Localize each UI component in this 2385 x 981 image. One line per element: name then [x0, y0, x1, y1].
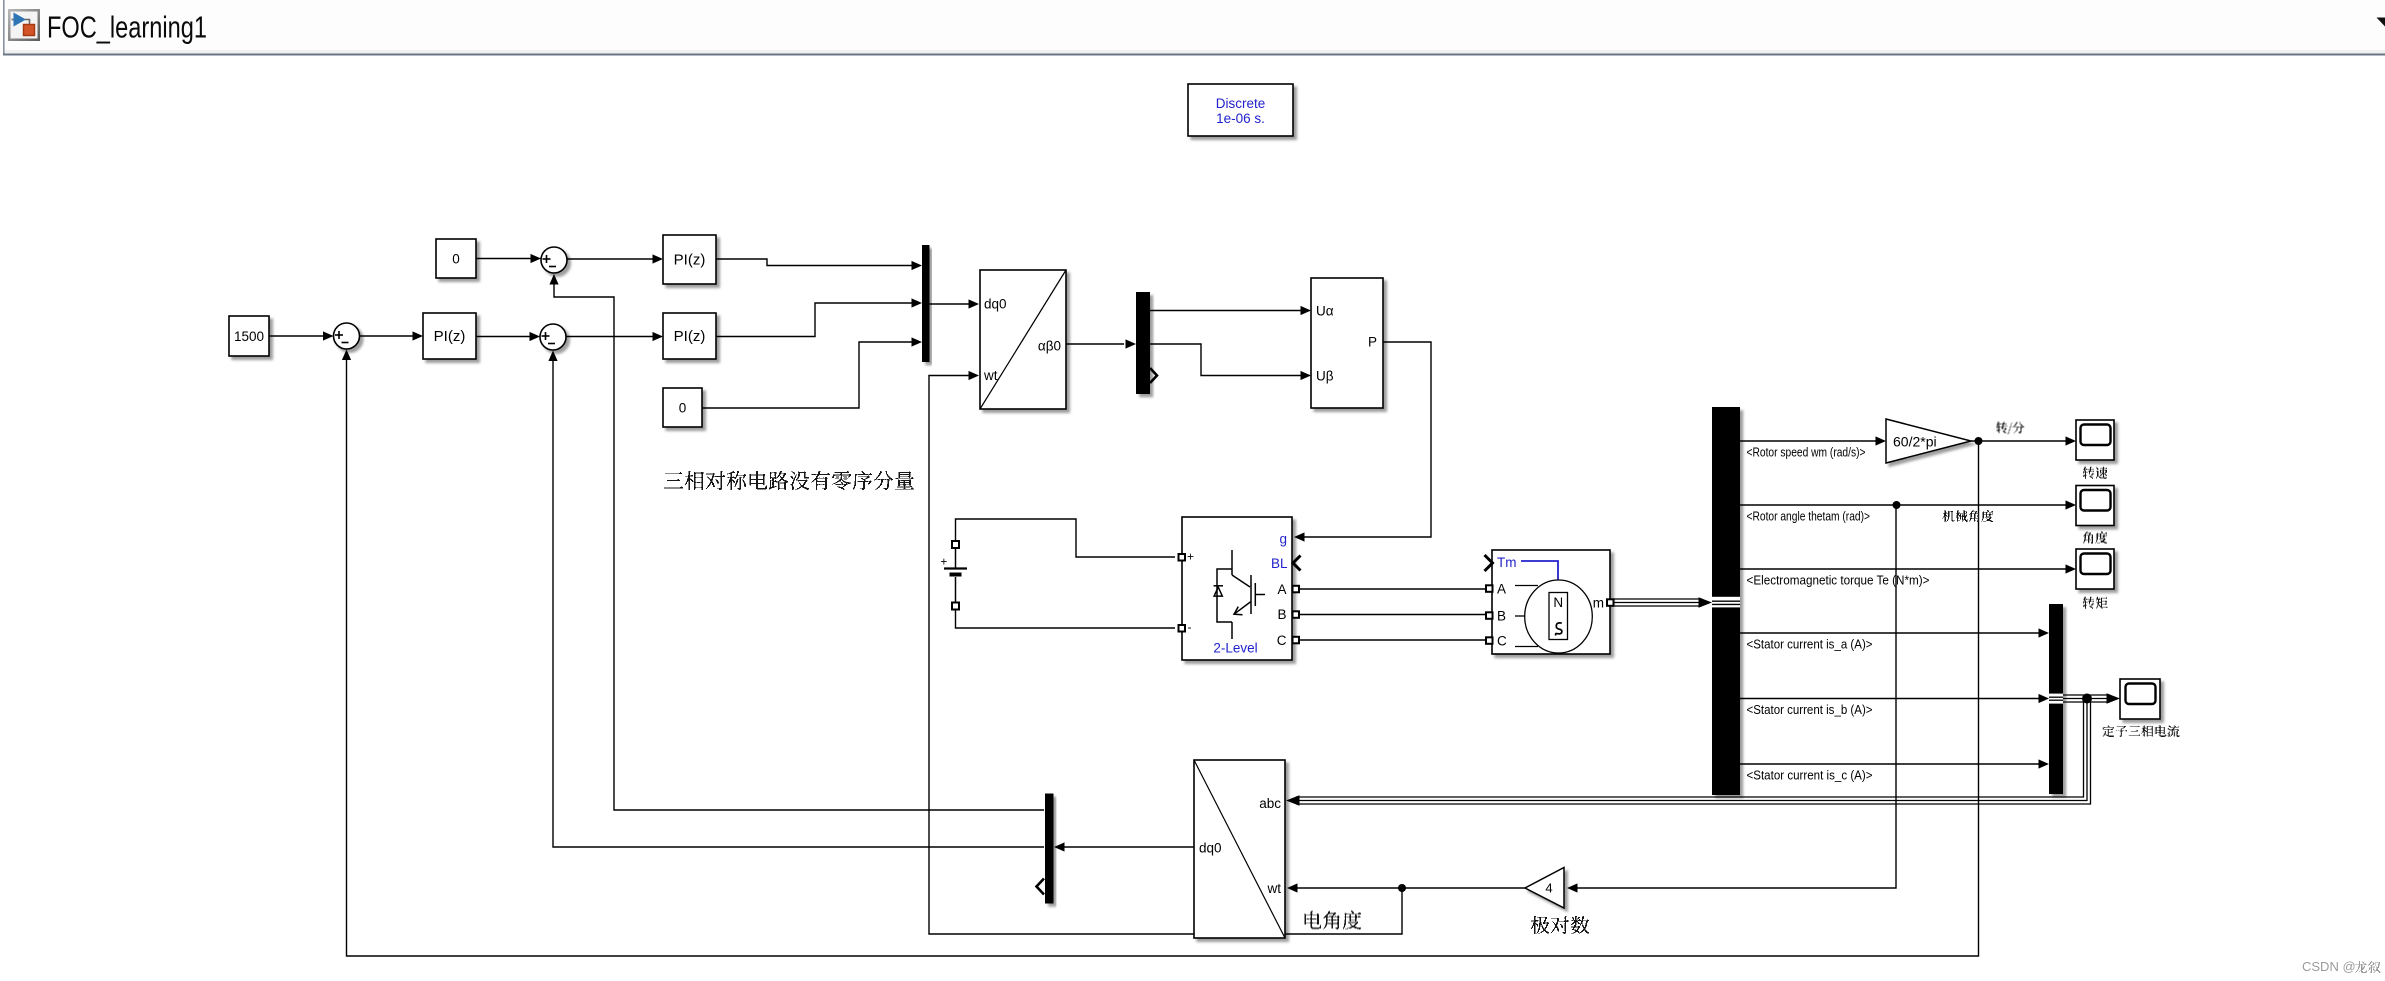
svg-text:<Rotor speed wm (rad/s)>: <Rotor speed wm (rad/s)> — [1747, 445, 1866, 460]
title bar bottom border — [3, 54, 2385, 56]
PMSM port squares — [1486, 585, 1614, 644]
wire gain to scope speed — [1971, 440, 2066, 442]
wire stator current c — [1740, 763, 2039, 765]
svg-text:g: g — [1279, 532, 1287, 547]
wire dq0 feedback to Demux2 — [1064, 846, 1194, 848]
svg-text:<Electromagnetic torque Te (N*: <Electromagnetic torque Te (N*m)> — [1747, 573, 1930, 588]
converter block 2-Level — [1182, 517, 1292, 660]
svg-text:PI(z): PI(z) — [674, 252, 706, 269]
bus wire m to Bus Selector — [1614, 599, 1703, 606]
label mechanical angle — [1944, 510, 1993, 522]
junction currents — [2082, 694, 2092, 704]
wire const0b to Mux1 in3 — [702, 342, 912, 408]
svg-text:wt: wt — [1267, 881, 1282, 896]
PI(z) controller q-axis — [663, 313, 716, 359]
PI(z) controller speed — [423, 313, 476, 359]
scope block angle — [2076, 486, 2114, 526]
scope label angle — [2084, 532, 2107, 544]
Discrete solver block — [1188, 84, 1293, 136]
wire d feedback to SumD — [554, 283, 1044, 810]
mux Mux1 (dq0 assemble) — [922, 245, 930, 362]
constant block 0 (zero seq) — [663, 388, 702, 427]
svg-text:<Stator current is_c (A)>: <Stator current is_c (A)> — [1747, 768, 1873, 783]
constant block 0 (id ref) — [436, 239, 476, 278]
scope label torque — [2083, 597, 2107, 609]
wire PI(z)q to Mux1 in2 — [716, 303, 912, 337]
svg-text:0: 0 — [452, 252, 460, 267]
svg-text:4: 4 — [1545, 881, 1552, 896]
junction electrical angle — [1398, 884, 1406, 892]
svg-text:FOC_learning1: FOC_learning1 — [47, 10, 207, 45]
demux Demux2 (dq feedback split) — [1045, 794, 1054, 904]
label pole pairs — [1531, 916, 1589, 934]
svg-text:PI(z): PI(z) — [434, 328, 466, 345]
wire phase B — [1299, 614, 1486, 616]
wire Mux1 to dq0 transform — [930, 303, 970, 305]
wire rotor angle out — [1740, 504, 2066, 506]
PI(z) controller d-axis — [663, 235, 716, 284]
svg-text:Discrete: Discrete — [1216, 96, 1266, 111]
bus wire currents feedback — [1296, 700, 2091, 804]
svg-text:-: - — [1188, 620, 1192, 634]
wire PI(z)d to Mux1 in1 — [716, 259, 912, 266]
wire 1500 to SumSpeed — [269, 335, 323, 337]
svg-text:wt: wt — [983, 368, 998, 383]
wire SumD to PI(z) d — [567, 258, 653, 260]
wire gain4 to wt — [1297, 887, 1525, 889]
scope label speed — [2083, 467, 2107, 479]
svg-text:B: B — [1497, 609, 1506, 624]
junction speed — [1975, 437, 1983, 445]
svg-text:P: P — [1368, 335, 1377, 350]
label electrical angle — [1305, 911, 1361, 930]
junction rotor angle — [1893, 501, 1901, 509]
wire battery plus to converter — [956, 519, 1176, 557]
bus wire mux2 to scope currents — [2063, 695, 2110, 702]
svg-text:αβ0: αβ0 — [1038, 339, 1061, 354]
wire speed feedback to SumSpeed — [347, 360, 1979, 956]
simulink model icon — [8, 9, 40, 41]
wire Demux1 to Ualpha — [1150, 310, 1301, 312]
svg-text:0: 0 — [679, 401, 687, 416]
demux Demux1 (alpha beta split) — [1136, 292, 1150, 394]
mux2 input marker — [2049, 694, 2063, 704]
title bar background — [4, 0, 2385, 50]
gain block 60/2*pi — [1886, 419, 1971, 463]
scope block speed — [2076, 420, 2114, 460]
wire stator current a — [1740, 632, 2039, 634]
svg-text:60/2*pi: 60/2*pi — [1893, 434, 1937, 450]
motor block PMSM — [1492, 550, 1610, 654]
svg-text:2-Level: 2-Level — [1213, 641, 1257, 656]
scope label stator 3phase currents — [2103, 726, 2179, 737]
gain block 4 pole pairs — [1525, 868, 1564, 909]
svg-text:<Stator current is_a (A)>: <Stator current is_a (A)> — [1747, 637, 1873, 652]
wire P to gate g — [1304, 342, 1431, 537]
svg-text:1e-06 s.: 1e-06 s. — [1216, 111, 1265, 126]
wire battery minus to converter — [956, 610, 1176, 629]
sum block SumD — [541, 247, 567, 273]
transform block dq0 to alphabeta0 — [980, 270, 1066, 409]
wire rotor angle to gain4 — [1577, 505, 1896, 888]
wire q feedback to SumQ — [553, 360, 1044, 847]
wire phase A — [1299, 588, 1486, 590]
demux1 unused output chevron — [1150, 368, 1157, 383]
annotation three-phase no zero sequence — [667, 471, 913, 490]
svg-text:B: B — [1277, 607, 1286, 622]
title bar dropdown arrow — [2377, 18, 2385, 27]
svg-text:<Rotor angle thetam (rad)>: <Rotor angle thetam (rad)> — [1747, 509, 1871, 524]
svg-text:m: m — [1593, 596, 1604, 611]
2-Level port squares — [1179, 554, 1300, 643]
DC voltage source battery — [944, 548, 967, 602]
wire rotor speed to gain — [1740, 440, 1876, 442]
mux Mux2 (3 phase currents) — [2049, 604, 2063, 794]
wire SumQ to PI(z) q — [566, 336, 653, 338]
svg-text:Uα: Uα — [1316, 304, 1334, 319]
svg-text:+: + — [941, 557, 948, 569]
svg-text:dq0: dq0 — [1199, 841, 1222, 856]
svg-text:PI(z): PI(z) — [674, 328, 706, 345]
svg-text:1500: 1500 — [234, 329, 264, 344]
SVPWM block Ualpha Ubeta to P — [1311, 278, 1383, 408]
sum block SumSpeed — [334, 323, 360, 349]
wire alphabeta0 to Demux1 — [1066, 343, 1124, 345]
svg-text:C: C — [1497, 634, 1507, 649]
svg-text:A: A — [1497, 582, 1506, 597]
transform block abc to dq0 — [1194, 760, 1285, 938]
svg-text:Tm: Tm — [1497, 555, 1517, 570]
wire Demux1 to Ubeta — [1150, 344, 1301, 376]
bus selector — [1712, 407, 1740, 795]
wire phase C — [1299, 639, 1486, 641]
wire torque out — [1740, 568, 2066, 570]
svg-text:A: A — [1277, 582, 1286, 597]
svg-text:Uβ: Uβ — [1316, 369, 1334, 384]
constant block 1500 (speed ref) — [229, 316, 269, 356]
wire electrical angle feedback to park wt — [929, 376, 1402, 935]
wire stator current b — [1740, 698, 2039, 700]
svg-text:+: + — [1187, 550, 1194, 564]
scope block stator currents — [2120, 679, 2160, 719]
scope block torque — [2076, 549, 2114, 589]
bus selector input marker — [1712, 597, 1740, 608]
svg-text:abc: abc — [1259, 796, 1281, 811]
wire const0 to SumD — [476, 258, 531, 260]
svg-text:dq0: dq0 — [984, 297, 1007, 312]
sum block SumQ — [540, 324, 566, 350]
svg-text:CSDN @: CSDN @ — [2302, 959, 2356, 974]
demux2 unused output chevron — [1037, 879, 1045, 895]
title bar left border — [3, 0, 5, 55]
PMSM Tm chevron — [1485, 555, 1493, 571]
label rpm — [1997, 423, 2024, 434]
svg-text:BL: BL — [1271, 556, 1288, 571]
2-Level BL chevron — [1293, 556, 1301, 571]
wire SumSpeed to PI(z) speed — [360, 335, 414, 337]
svg-text:N: N — [1553, 595, 1563, 610]
svg-text:C: C — [1277, 633, 1287, 648]
svg-text:<Stator current is_b (A)>: <Stator current is_b (A)> — [1747, 702, 1873, 717]
wire PI(z)speed to SumQ — [476, 336, 530, 338]
